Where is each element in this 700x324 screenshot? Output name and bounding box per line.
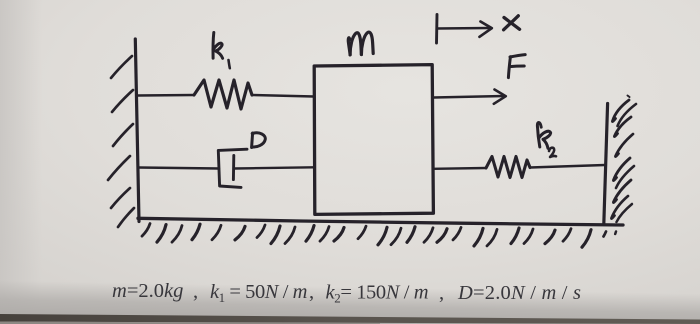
svg-text:,: , xyxy=(193,281,198,303)
wire: spring k2 to right wall xyxy=(530,165,605,168)
svg-text:k1 = 50N / m: k1 = 50N / m xyxy=(210,281,307,305)
label F xyxy=(508,55,525,78)
damper D (cylinder + piston) xyxy=(218,149,247,187)
wire: wall to spring k1 xyxy=(138,94,195,97)
right wall hatching xyxy=(611,100,636,222)
wire: wall to damper xyxy=(139,168,219,169)
svg-text:m=2.0kg: m=2.0kg xyxy=(112,280,183,302)
ground hatching xyxy=(142,224,616,248)
dark photo edge band xyxy=(0,314,700,324)
spring k1 xyxy=(194,80,252,109)
stray pencil speck xyxy=(628,96,630,98)
wire: spring k1 to mass xyxy=(252,95,314,97)
svg-text:D=2.0N / m / s: D=2.0N / m / s xyxy=(457,282,581,304)
label k1 xyxy=(213,33,230,69)
label x xyxy=(504,16,520,30)
wire: damper to mass xyxy=(235,167,314,168)
force F arrow xyxy=(434,96,505,98)
x axis reference: tick xyxy=(435,15,438,44)
wire: mass to spring k2 xyxy=(433,167,486,170)
ground line xyxy=(138,218,623,225)
label m (handwritten) xyxy=(348,32,373,55)
svg-text:k2= 150N / m: k2= 150N / m xyxy=(326,281,429,305)
left wall hatching xyxy=(108,56,134,227)
label D xyxy=(252,133,266,148)
left wall xyxy=(135,39,139,222)
svg-text:,: , xyxy=(439,282,444,304)
caption: m = 2.0kg , k1 = 50N/m , k2 = 150N/m , D = 2.0N/m/s xyxy=(112,280,581,305)
mass block m xyxy=(314,65,433,215)
label k2 xyxy=(537,122,556,157)
x axis arrow xyxy=(437,27,490,30)
svg-text:,: , xyxy=(309,281,314,303)
right wall xyxy=(604,104,608,225)
spring k2 xyxy=(486,157,530,178)
